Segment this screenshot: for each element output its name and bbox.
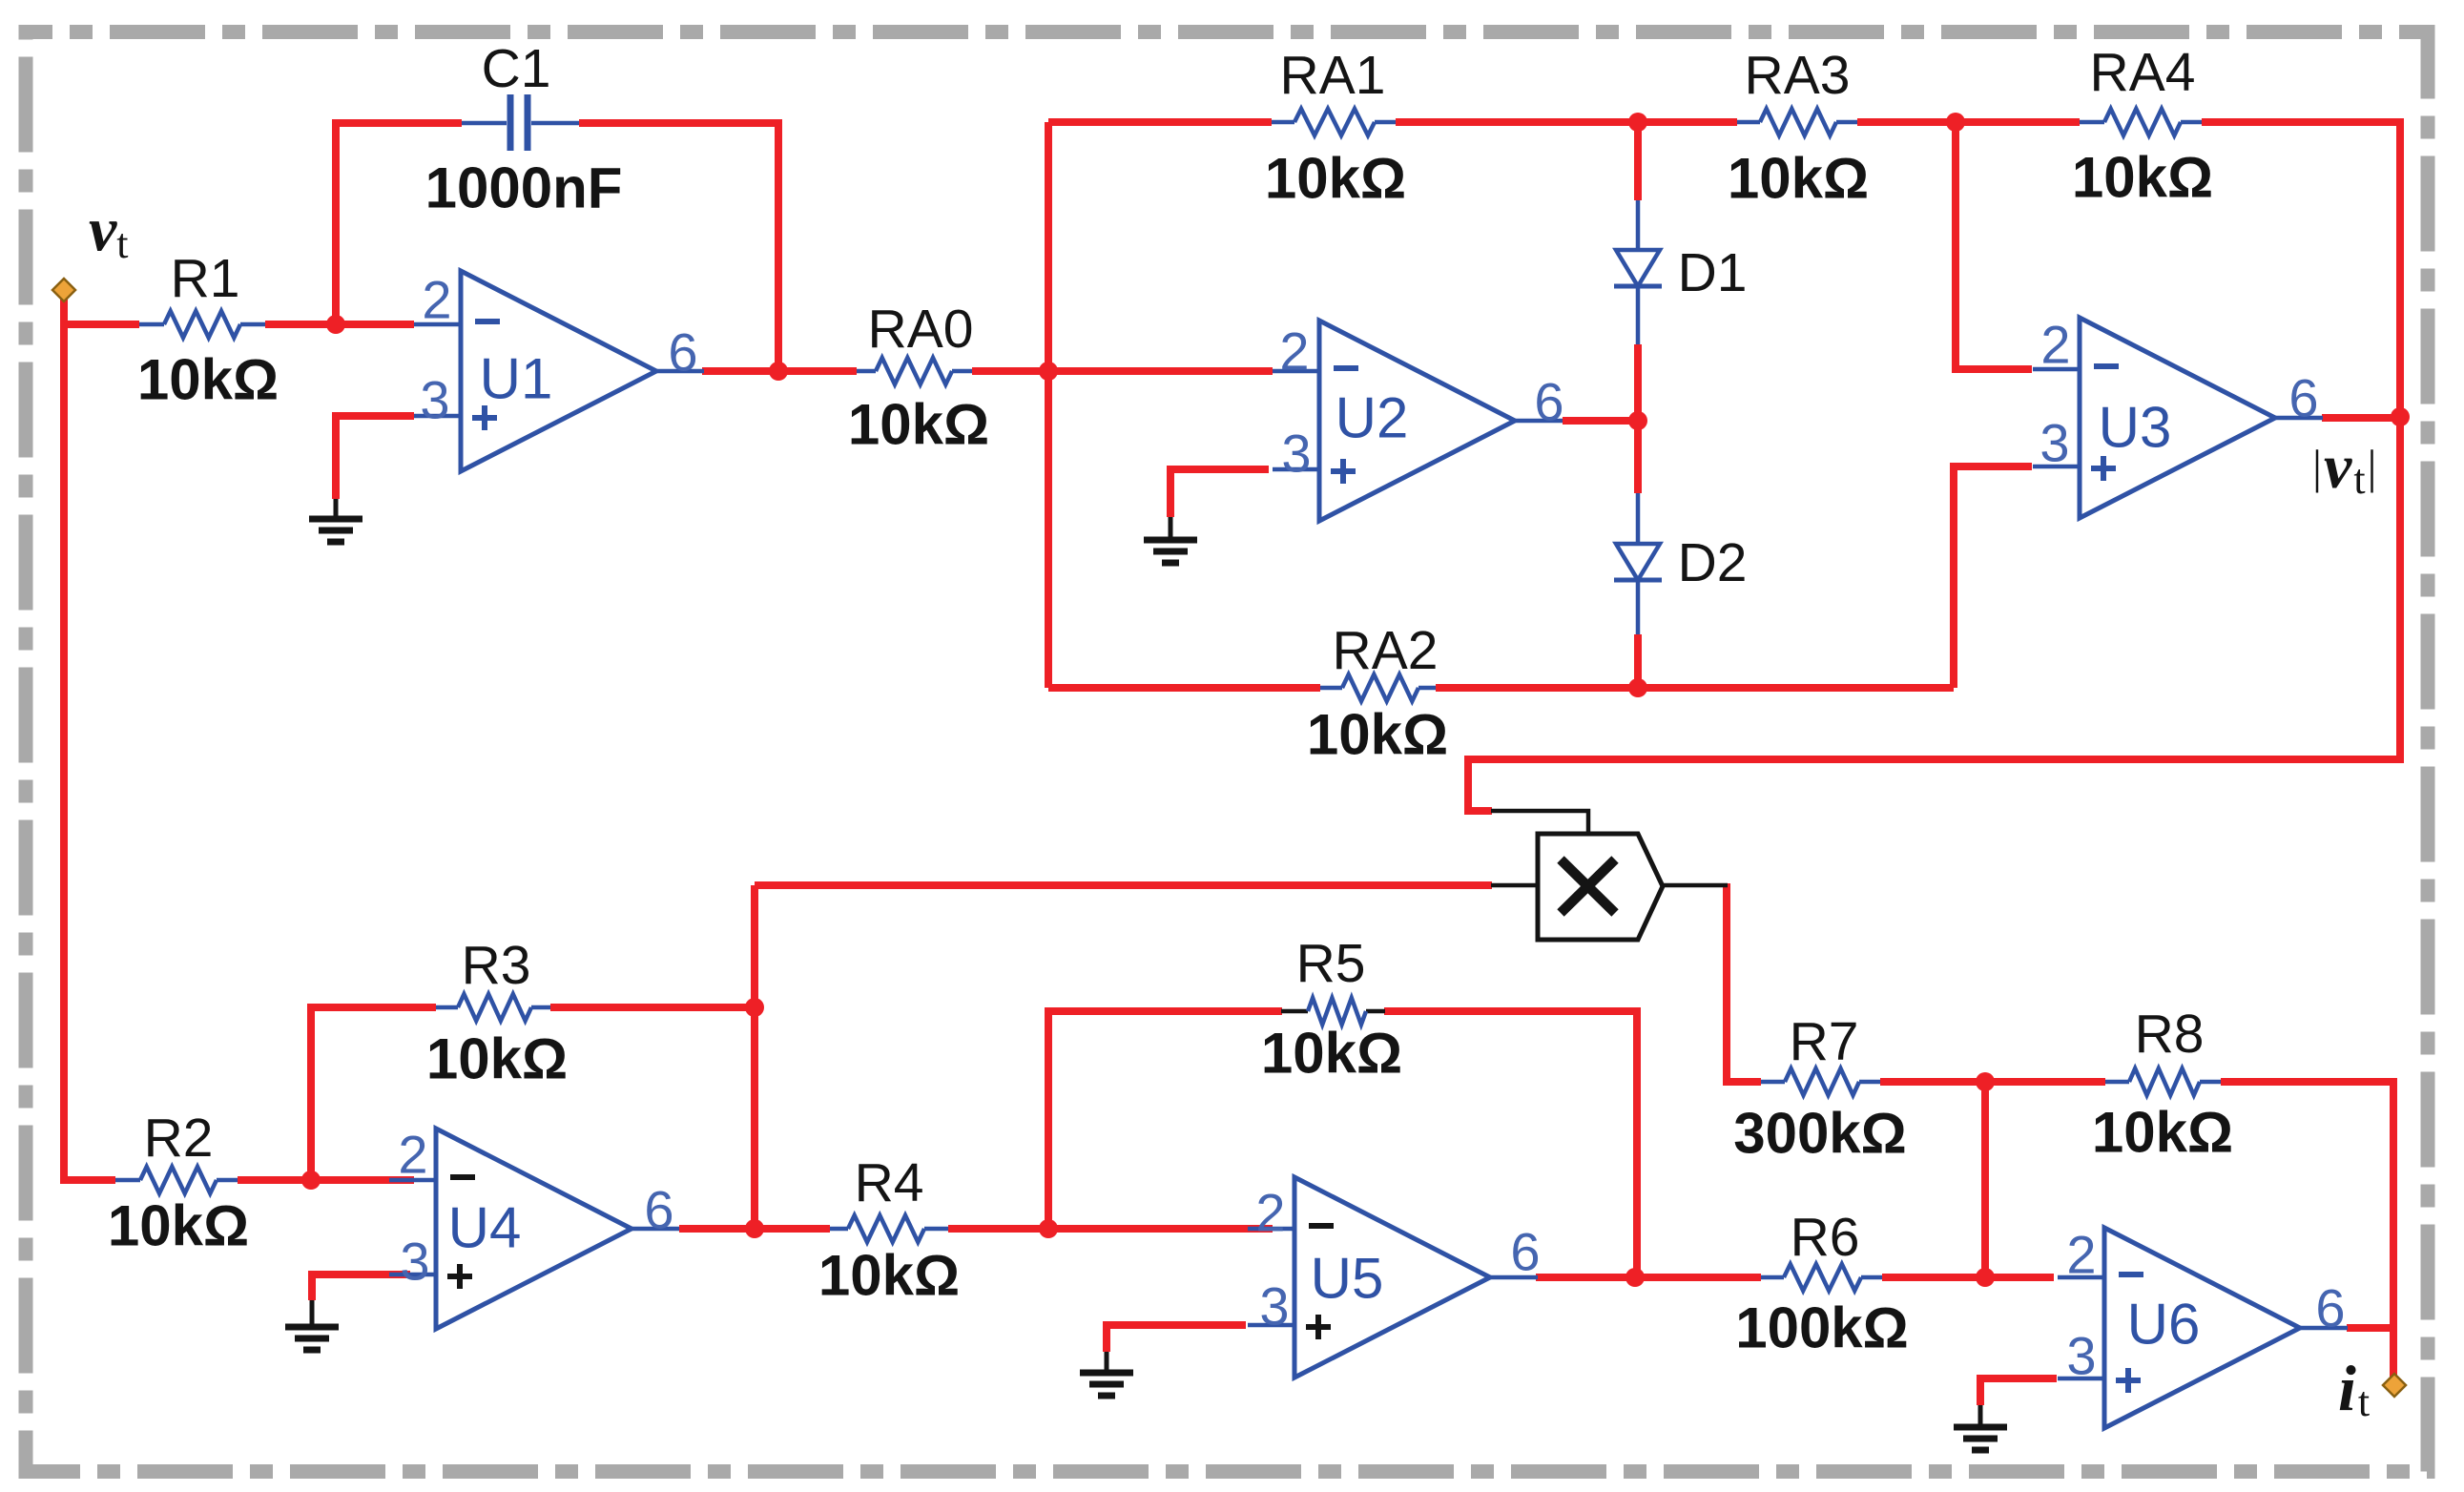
wire R5 to U5 output node	[1384, 1011, 1637, 1277]
junction U5 out	[1625, 1268, 1645, 1287]
wire diode chain middle	[1634, 344, 1642, 493]
wire U5 pin3 to ground	[1107, 1325, 1246, 1352]
wire U6 output	[2347, 1324, 2393, 1332]
wire multiplier left lead	[1491, 883, 1538, 888]
resistor R2	[108, 1108, 249, 1258]
wire RA3 junction to U3 pin2	[1956, 122, 2032, 369]
svg-text:2: 2	[422, 270, 451, 330]
resistor RA4	[2072, 42, 2213, 210]
wire R4 junction riser to R5	[1048, 1011, 1282, 1229]
svg-text:10kΩ: 10kΩ	[818, 1244, 960, 1308]
svg-text:U3: U3	[2099, 396, 2172, 460]
svg-text:10kΩ: 10kΩ	[137, 348, 279, 412]
wire R3 to riser junction	[550, 1004, 755, 1011]
op-amp U2	[1273, 321, 1564, 521]
svg-text:10kΩ: 10kΩ	[426, 1027, 568, 1091]
svg-text:6: 6	[2315, 1278, 2345, 1338]
svg-text:3: 3	[1281, 424, 1311, 484]
svg-text:10kΩ: 10kΩ	[2092, 1101, 2233, 1165]
svg-text:3: 3	[2066, 1326, 2096, 1386]
svg-text:R2: R2	[144, 1108, 214, 1169]
svg-text:D2: D2	[1678, 532, 1748, 593]
svg-text:10kΩ: 10kΩ	[1728, 147, 1869, 211]
wire multiplier output riser to R7	[1727, 883, 1761, 1082]
ground U6 ground	[1954, 1405, 2007, 1450]
capacitor C1	[425, 38, 623, 220]
junction R3 riser	[745, 998, 764, 1017]
svg-text:3: 3	[420, 370, 449, 430]
junction R4/R5	[1039, 1219, 1058, 1238]
op-amp U3	[2033, 315, 2323, 519]
wire D2 cathode lead	[1636, 580, 1641, 634]
wire RA2 row right	[1436, 684, 1954, 692]
svg-text:D1: D1	[1678, 242, 1748, 303]
svg-text:RA3: RA3	[1745, 45, 1851, 106]
svg-text:R1: R1	[171, 248, 240, 309]
node vt input terminal	[52, 196, 129, 302]
wire U6 pin3 to ground	[1980, 1378, 2057, 1405]
svg-text:6: 6	[668, 322, 697, 383]
wire R3 R4 junction riser	[751, 885, 758, 1229]
wire RA4 to U3 output node	[2202, 122, 2400, 417]
svg-text:RA4: RA4	[2090, 42, 2196, 103]
wire R6 to U6 pin2	[1882, 1274, 2054, 1281]
wire R4 to U5 pin2	[948, 1225, 1273, 1233]
wire feedback riser to C1 left	[336, 123, 462, 328]
wire multiplier output lead	[1663, 883, 1728, 888]
wire RA3 to RA4	[1857, 118, 2080, 126]
svg-text:2: 2	[2040, 315, 2070, 375]
resistor R7	[1733, 1011, 1907, 1166]
ground U1 ground	[309, 499, 362, 542]
svg-text:2: 2	[1279, 321, 1309, 382]
op-amp U5	[1248, 1177, 1541, 1378]
ground U4 ground	[285, 1300, 339, 1350]
svg-text:2: 2	[2066, 1225, 2096, 1285]
resistor RA3	[1728, 45, 1869, 211]
svg-text:10kΩ: 10kΩ	[2072, 146, 2213, 210]
svg-text:10kΩ: 10kΩ	[1265, 147, 1406, 211]
wire U1 output to RA0	[702, 367, 857, 375]
svg-text:10kΩ: 10kΩ	[848, 393, 989, 457]
ground U5 ground	[1080, 1352, 1133, 1396]
wire R5 left lead	[1281, 1009, 1308, 1014]
wire U2 output to diode node	[1563, 417, 1638, 425]
wire diode chain lower	[1634, 634, 1642, 688]
resistor RA1	[1265, 45, 1406, 211]
wire R5 right lead	[1366, 1009, 1385, 1014]
svg-text:100kΩ: 100kΩ	[1735, 1296, 1909, 1360]
diode D1	[1614, 242, 1747, 303]
junction RA1/RA3	[1628, 113, 1647, 132]
wire R2 to U4 pin2	[238, 1176, 414, 1184]
junction U2 out diodes	[1628, 411, 1647, 430]
svg-text:C1: C1	[482, 38, 551, 99]
junction U1 out	[769, 362, 788, 381]
wire RA0 to U2 pin2	[972, 367, 1273, 375]
svg-text:10kΩ: 10kΩ	[1307, 703, 1448, 767]
wire U5 output to R6	[1536, 1274, 1761, 1281]
svg-text:U4: U4	[448, 1196, 522, 1260]
svg-text:10kΩ: 10kΩ	[1261, 1022, 1402, 1086]
wire vt vertical to R2 row	[64, 292, 115, 1180]
wire D2 anode lead	[1636, 493, 1641, 544]
wire R8 to it node	[2221, 1082, 2393, 1382]
wire multiplier top lead	[1491, 811, 1588, 834]
junction R1/C1/U1.2	[326, 315, 345, 334]
svg-text:300kΩ: 300kΩ	[1733, 1102, 1907, 1166]
resistor R1	[137, 248, 279, 412]
svg-text:R7: R7	[1790, 1011, 1859, 1072]
wire vt to R1	[64, 321, 139, 328]
resistor RA0	[848, 299, 989, 457]
junction U3 out |vt|	[2391, 407, 2410, 426]
wire U3 output	[2322, 414, 2400, 422]
svg-text:U5: U5	[1311, 1247, 1384, 1311]
wire RA2 to U3 pin3	[1954, 466, 2032, 688]
svg-text:6: 6	[644, 1180, 673, 1240]
junction RA3/RA4	[1946, 113, 1965, 132]
svg-text:6: 6	[1510, 1222, 1540, 1282]
wire RA1 to RA3	[1396, 118, 1737, 126]
resistor R8	[2092, 1004, 2233, 1165]
op-amp U1	[414, 270, 704, 472]
ground U2 ground	[1144, 517, 1197, 563]
svg-text:3: 3	[400, 1232, 429, 1292]
wire RA1 riser through RA2	[1045, 122, 1052, 688]
wire U4 output to R4	[679, 1225, 830, 1233]
junction R7/R8	[1976, 1072, 1995, 1091]
wire RA2 row left	[1048, 684, 1320, 692]
junction D2/RA2	[1628, 678, 1647, 697]
svg-text:2: 2	[398, 1125, 427, 1185]
svg-text:6: 6	[2288, 368, 2318, 428]
svg-text:U1: U1	[480, 347, 553, 411]
junction R2/R3	[301, 1171, 321, 1190]
op-amp U6	[2058, 1225, 2348, 1429]
svg-text:RA2: RA2	[1333, 620, 1439, 681]
wire U4 pin3 to ground	[312, 1274, 410, 1300]
svg-text:U2: U2	[1336, 386, 1409, 450]
junction U4 out	[745, 1219, 764, 1238]
wire R1 to U1 pin2 node	[265, 321, 414, 328]
wire RA1 row left	[1048, 118, 1272, 126]
svg-text:6: 6	[1534, 372, 1563, 432]
svg-text:R4: R4	[855, 1152, 924, 1213]
wire |vt| node to multiplier top input	[1468, 417, 2400, 811]
wire D1 anode lead	[1636, 200, 1641, 250]
wire R7 to R8	[1880, 1078, 2105, 1086]
junction R6/U6.2	[1976, 1268, 1995, 1287]
svg-text:R6: R6	[1791, 1207, 1860, 1268]
resistor R5	[1261, 933, 1402, 1086]
node it output terminal	[2338, 1352, 2406, 1425]
resistor R4	[818, 1152, 960, 1308]
svg-text:R3: R3	[462, 935, 531, 996]
op-amp U4	[389, 1125, 679, 1330]
wire C1 right to U1 output node	[579, 123, 778, 375]
svg-text:U6: U6	[2127, 1293, 2201, 1357]
svg-text:2: 2	[1255, 1183, 1285, 1243]
wire R2 junction riser to R3	[311, 1007, 436, 1180]
svg-text:|vt|: |vt|	[2312, 432, 2379, 503]
resistor R6	[1735, 1207, 1909, 1360]
svg-text:RA0: RA0	[868, 299, 974, 360]
svg-text:3: 3	[1259, 1276, 1289, 1337]
wire D1 cathode lead	[1636, 286, 1641, 344]
wire U1 pin3 to ground	[336, 416, 414, 499]
svg-text:RA1: RA1	[1280, 45, 1386, 106]
svg-text:1000nF: 1000nF	[425, 156, 623, 220]
resistor R3	[426, 935, 568, 1091]
svg-text:R5: R5	[1296, 933, 1366, 994]
svg-text:10kΩ: 10kΩ	[108, 1194, 249, 1258]
junction RA0/RA1	[1039, 362, 1058, 381]
svg-text:R8: R8	[2135, 1004, 2205, 1065]
resistor RA2	[1307, 620, 1448, 767]
svg-text:3: 3	[2040, 413, 2069, 473]
wire R7 junction riser to R6 row	[1981, 1082, 1989, 1277]
multiplier X1	[1538, 834, 1663, 940]
wire diode chain upper	[1634, 122, 1642, 200]
wire U2 pin3 to ground	[1170, 469, 1269, 517]
diode D2	[1614, 532, 1747, 593]
wire multiplier left input row	[755, 881, 1492, 889]
